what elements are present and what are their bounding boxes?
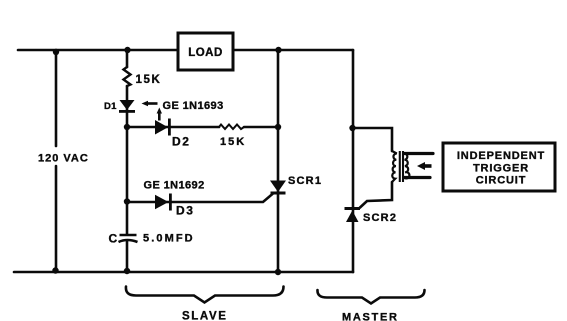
- wire top rail right segment: [233, 49, 353, 52]
- transformer T1 core lines: [400, 151, 403, 182]
- wire D2 row horizontal: [127, 126, 219, 129]
- wire top rail left segment: [18, 49, 177, 52]
- wire left source vertical upper: [55, 50, 58, 146]
- svg-text:SCR2: SCR2: [363, 212, 397, 224]
- wire bottom rail: [14, 271, 353, 274]
- wire right master vertical: [352, 50, 355, 272]
- svg-text:D2: D2: [172, 135, 191, 149]
- wire slave branch vertical middle: [126, 86, 129, 234]
- svg-text:GE 1N1693: GE 1N1693: [163, 100, 224, 112]
- svg-text:GE 1N1692: GE 1N1692: [144, 180, 205, 192]
- node dot bottom rail / slave branch: [124, 268, 130, 274]
- node dot bottom rail / source: [52, 267, 58, 273]
- diode D2 symbol: [155, 119, 171, 136]
- svg-text:15K: 15K: [220, 136, 246, 148]
- arrow trigger direction: [417, 162, 432, 170]
- arrow from D2 to label: [157, 108, 162, 121]
- svg-text:15K: 15K: [136, 74, 162, 86]
- thyristor SCR2 symbol: [345, 207, 361, 222]
- brace slave: [126, 287, 284, 303]
- node dot D2 row / SCR1 branch: [275, 124, 281, 130]
- diode D1 symbol: [119, 100, 135, 113]
- svg-text:5.0MFD: 5.0MFD: [143, 233, 195, 245]
- svg-text:MASTER: MASTER: [342, 312, 399, 321]
- wire slave branch vertical upper: [126, 50, 129, 67]
- load box: [178, 33, 233, 70]
- node dot master vertical / trigger feed: [349, 125, 355, 131]
- node dot top rail / source: [53, 49, 59, 55]
- wire D2 row to SCR1 branch: [244, 126, 278, 129]
- svg-text:SCR1: SCR1: [288, 175, 322, 187]
- node dot top rail / slave branch: [124, 47, 130, 53]
- svg-text:INDEPENDENT: INDEPENDENT: [457, 150, 545, 162]
- svg-text:120 VAC: 120 VAC: [38, 153, 89, 165]
- independent trigger circuit label: [457, 150, 545, 187]
- transformer T1 secondary bottom lead: [404, 176, 430, 179]
- svg-text:LOAD: LOAD: [188, 47, 223, 59]
- capacitor C symbol: [119, 235, 138, 242]
- wire SCR1 vertical: [277, 50, 280, 272]
- svg-text:D1: D1: [104, 101, 117, 112]
- arrow from label to D1: [142, 101, 158, 106]
- svg-text:SLAVE: SLAVE: [182, 311, 228, 321]
- independent trigger circuit box: [443, 143, 555, 191]
- node dot D3 row: [124, 198, 130, 204]
- node dot top rail / SCR1 branch: [275, 47, 281, 53]
- wire transformer primary feed: [352, 128, 392, 151]
- svg-text:CIRCUIT: CIRCUIT: [476, 175, 527, 187]
- wire D3 row horizontal: [127, 194, 273, 203]
- node dot bottom rail / SCR1 branch: [275, 269, 281, 275]
- brace master: [317, 290, 424, 304]
- diode D3 symbol: [155, 194, 172, 211]
- svg-text:C: C: [109, 232, 118, 246]
- wire transformer primary to SCR2 gate: [360, 182, 392, 208]
- transformer T1 secondary top lead: [404, 152, 433, 155]
- wire slave branch vertical below capacitor: [126, 241, 129, 272]
- resistor 15K vertical zigzag: [124, 67, 131, 86]
- node dot D1 cathode / D2 row: [124, 124, 130, 130]
- svg-text:TRIGGER: TRIGGER: [473, 163, 529, 175]
- resistor 15K horizontal squiggle: [219, 125, 244, 130]
- transformer T1 primary coil: [392, 151, 397, 182]
- thyristor SCR1 symbol: [270, 181, 286, 195]
- transformer T1 secondary coil: [404, 153, 409, 178]
- svg-text:D3: D3: [176, 204, 195, 218]
- wire left source vertical lower: [55, 166, 58, 272]
